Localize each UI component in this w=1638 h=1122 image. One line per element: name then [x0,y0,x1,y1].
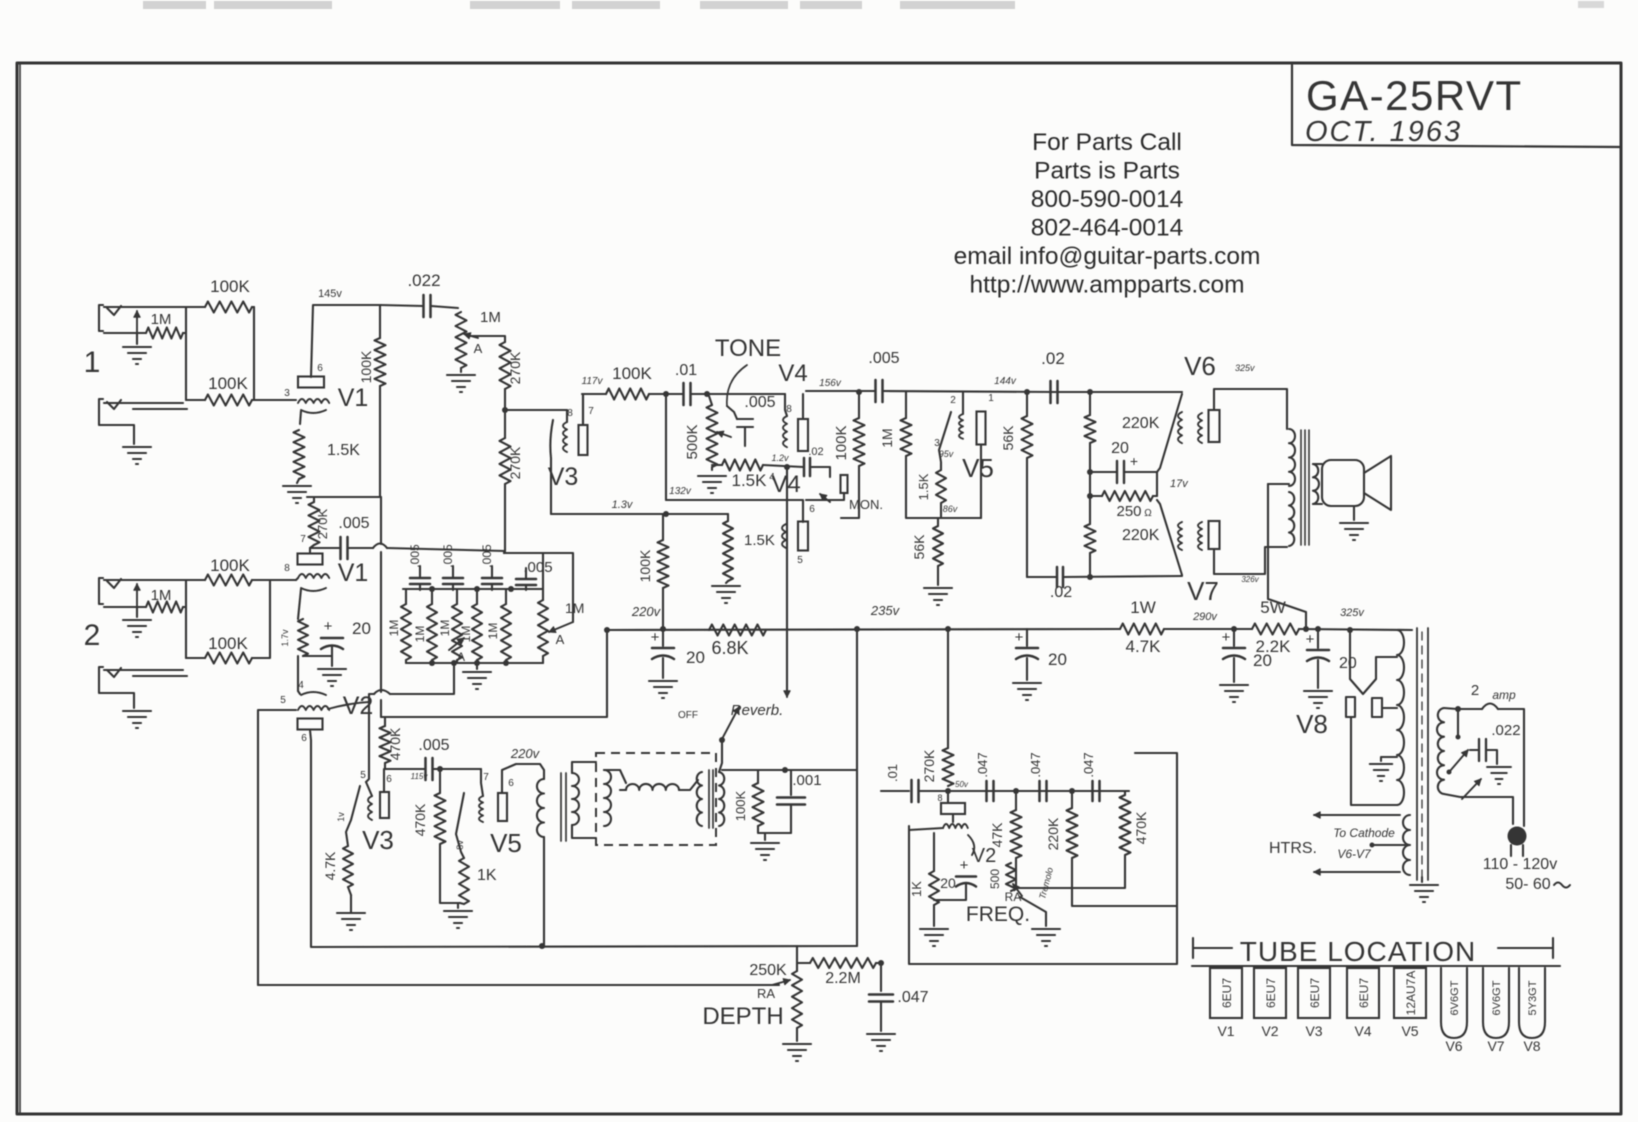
svg-text:470K: 470K [412,803,428,836]
svg-text:MON.: MON. [849,497,883,512]
svg-text:.005: .005 [338,515,369,532]
svg-text:1.5K: 1.5K [916,473,931,500]
svg-text:6EU7: 6EU7 [1264,978,1278,1008]
svg-text:12AU7A: 12AU7A [1404,971,1418,1016]
svg-text:http://www.ampparts.com: http://www.ampparts.com [969,272,1244,299]
svg-text:V6: V6 [1184,351,1216,381]
svg-text:56K: 56K [1000,425,1016,451]
svg-text:270K: 270K [507,446,523,479]
svg-text:1.5K: 1.5K [327,442,360,459]
svg-text:1M: 1M [879,428,895,447]
svg-text:TONE: TONE [715,335,781,362]
svg-text:1M: 1M [480,309,501,326]
svg-text:7: 7 [300,534,306,545]
svg-text:8: 8 [284,563,290,574]
svg-text:V8: V8 [1523,1038,1540,1054]
svg-text:500K: 500K [684,424,701,459]
svg-text:1.5K: 1.5K [744,532,775,549]
svg-text:20: 20 [352,619,371,638]
svg-text:56K: 56K [911,534,927,560]
svg-text:1: 1 [988,393,994,404]
svg-text:.047: .047 [1081,752,1096,777]
svg-text:4.7K: 4.7K [1126,637,1162,656]
svg-text:220v: 220v [510,746,541,761]
svg-text:1M: 1M [486,623,500,640]
svg-text:325v: 325v [1340,607,1365,619]
svg-text:4: 4 [298,680,304,691]
svg-text:For Parts Call: For Parts Call [1032,129,1182,156]
svg-text:V5: V5 [1401,1023,1418,1039]
svg-text:6.8K: 6.8K [711,638,748,658]
svg-text:2: 2 [84,619,101,652]
svg-text:V1: V1 [338,559,369,587]
svg-text:V4: V4 [778,360,807,387]
svg-text:V1: V1 [338,384,369,412]
svg-text:.022: .022 [407,271,440,290]
svg-text:20: 20 [1048,650,1067,669]
svg-text:100K: 100K [208,374,248,393]
svg-text:250: 250 [1116,503,1141,520]
svg-text:1M: 1M [438,620,452,637]
svg-text:145v: 145v [318,288,342,300]
svg-text:.047: .047 [975,752,990,777]
svg-text:20: 20 [1339,655,1357,672]
svg-text:1M: 1M [151,311,172,328]
svg-text:7: 7 [483,772,489,783]
svg-text:V5: V5 [962,453,994,483]
svg-text:2.2K: 2.2K [1256,637,1292,656]
svg-text:V3: V3 [1305,1023,1322,1039]
svg-text:.005: .005 [868,350,899,367]
svg-text:OFF: OFF [678,710,698,721]
svg-text:20: 20 [686,648,705,667]
svg-text:1W: 1W [1130,598,1156,617]
svg-text:V3: V3 [548,463,579,491]
svg-text:.005: .005 [744,394,775,411]
svg-text:100K: 100K [833,425,850,460]
svg-text:.022: .022 [1491,722,1520,739]
svg-text:220K: 220K [1045,817,1061,850]
svg-text:A: A [457,650,465,664]
svg-text:802-464-0014: 802-464-0014 [1031,215,1184,242]
svg-text:1.7v: 1.7v [280,629,290,647]
svg-text:V7: V7 [1187,576,1219,606]
svg-text:V7: V7 [1487,1038,1504,1054]
svg-text:TUBE LOCATION: TUBE LOCATION [1240,936,1477,967]
svg-text:6: 6 [508,778,514,789]
svg-text:.02: .02 [1041,349,1065,368]
svg-text:5W: 5W [1260,598,1286,617]
svg-text:156v: 156v [819,378,842,389]
svg-text:6V6GT: 6V6GT [1449,980,1461,1015]
svg-text:A: A [556,632,565,647]
svg-text:6: 6 [809,504,815,515]
svg-text:17v: 17v [1170,478,1189,490]
svg-text:V3: V3 [362,825,394,855]
svg-text:250K: 250K [749,962,787,979]
svg-text:8: 8 [937,793,942,803]
svg-text:220v: 220v [631,604,662,619]
svg-text:.005: .005 [480,544,494,568]
svg-text:235v: 235v [870,603,901,618]
svg-text:290v: 290v [1192,611,1218,623]
svg-text:1v: 1v [336,812,346,822]
svg-text:+: + [1222,629,1231,646]
svg-text:6: 6 [301,733,307,744]
svg-text:.047: .047 [1028,752,1043,777]
svg-text:270K: 270K [507,351,523,384]
svg-text:220K: 220K [1122,527,1160,544]
svg-text:.02: .02 [1050,584,1072,601]
svg-text:1: 1 [84,346,101,379]
svg-text:+: + [960,857,969,874]
svg-text:1.3v: 1.3v [612,499,634,511]
svg-text:50- 60: 50- 60 [1505,876,1550,893]
svg-text:DEPTH: DEPTH [702,1003,783,1030]
svg-text:3: 3 [284,388,290,399]
svg-text:6: 6 [386,774,392,785]
svg-text:1K: 1K [477,867,497,884]
svg-text:50v: 50v [955,780,969,789]
svg-text:20: 20 [940,875,956,891]
svg-text:RA: RA [1005,890,1022,904]
svg-text:.02: .02 [808,446,823,458]
svg-text:325v: 325v [1235,363,1255,373]
svg-text:.005: .005 [418,737,449,754]
svg-text:V4: V4 [771,471,800,498]
svg-text:3: 3 [934,438,940,449]
svg-text:A: A [474,341,483,356]
svg-text:100K: 100K [210,277,250,296]
svg-text:.005: .005 [523,559,552,576]
svg-text:270K: 270K [315,508,330,539]
svg-text:+: + [651,629,660,646]
svg-text:800-590-0014: 800-590-0014 [1031,186,1184,213]
svg-text:1.5K: 1.5K [732,471,768,490]
svg-text:100K: 100K [208,634,248,653]
svg-text:.01: .01 [885,764,900,782]
svg-text:V6-V7: V6-V7 [1337,847,1372,861]
svg-text:8: 8 [567,408,573,419]
svg-text:7: 7 [588,406,594,417]
svg-text:117v: 117v [582,376,604,387]
svg-text:HTRS.: HTRS. [1269,840,1317,857]
svg-text:V8: V8 [1296,709,1328,739]
svg-text:V6: V6 [1445,1038,1462,1054]
svg-text:FREQ.: FREQ. [966,903,1030,926]
svg-text:6EU7: 6EU7 [1308,978,1322,1008]
svg-text:86v: 86v [943,504,958,514]
svg-text:115v: 115v [411,772,429,781]
svg-text:1M: 1M [413,626,427,643]
svg-text:6: 6 [317,363,323,374]
svg-text:V5: V5 [490,828,522,858]
svg-text:6EU7: 6EU7 [1220,978,1234,1008]
svg-text:4.7K: 4.7K [322,851,338,880]
svg-text:2: 2 [1471,682,1479,699]
svg-text:.01: .01 [675,362,697,379]
svg-text:email info@guitar-parts.com: email info@guitar-parts.com [954,243,1261,270]
svg-text:V1: V1 [1217,1023,1234,1039]
svg-text:132v: 132v [669,486,692,497]
svg-text:220K: 220K [1122,415,1160,432]
svg-text:326v: 326v [1241,575,1259,584]
svg-text:2: 2 [950,395,956,406]
svg-text:1K: 1K [909,881,924,897]
svg-text:144v: 144v [994,376,1017,387]
svg-text:.005: .005 [441,544,455,568]
svg-text:1M: 1M [565,600,584,616]
svg-text:+: + [324,618,333,635]
svg-text:100K: 100K [612,364,652,383]
svg-text:1M: 1M [387,620,401,637]
svg-text:5: 5 [797,555,803,566]
svg-text:1.2v: 1.2v [771,453,789,463]
svg-text:1M: 1M [151,587,172,604]
svg-text:100K: 100K [733,790,748,821]
svg-text:110 - 120v: 110 - 120v [1483,856,1557,873]
svg-text:100K: 100K [637,549,653,582]
svg-text:500: 500 [988,869,1002,889]
svg-text:+: + [1015,629,1024,646]
svg-text:6EU7: 6EU7 [1357,978,1371,1008]
svg-text:.001: .001 [792,772,821,789]
svg-text:To Cathode: To Cathode [1333,826,1395,840]
svg-text:100K: 100K [358,350,374,383]
svg-text:Ω: Ω [1144,508,1152,519]
svg-text:+: + [1306,631,1315,648]
svg-text:V4: V4 [1354,1023,1371,1039]
svg-text:GA-25RVT: GA-25RVT [1306,72,1523,119]
svg-text:amp: amp [1492,688,1516,702]
svg-text:.005: .005 [408,544,422,568]
svg-text:Parts is Parts: Parts is Parts [1034,158,1180,185]
svg-text:2.2M: 2.2M [825,970,861,987]
svg-text:Tremolo: Tremolo [1037,866,1055,900]
svg-text:4: 4 [769,472,775,483]
svg-text:+: + [1130,453,1138,469]
svg-text:5Y3GT: 5Y3GT [1527,980,1539,1015]
svg-text:470K: 470K [387,727,403,760]
svg-text:RA: RA [757,986,775,1001]
svg-text:6V6GT: 6V6GT [1491,980,1503,1015]
svg-text:.047: .047 [897,989,928,1006]
svg-text:470K: 470K [1133,811,1149,844]
svg-text:270K: 270K [921,749,937,782]
svg-text:5: 5 [280,695,286,706]
svg-text:47K: 47K [989,822,1005,848]
svg-text:V2: V2 [1261,1023,1278,1039]
svg-text:100K: 100K [210,556,250,575]
svg-text:OCT. 1963: OCT. 1963 [1305,116,1462,148]
svg-text:20: 20 [1111,440,1129,457]
svg-text:5: 5 [360,770,366,781]
